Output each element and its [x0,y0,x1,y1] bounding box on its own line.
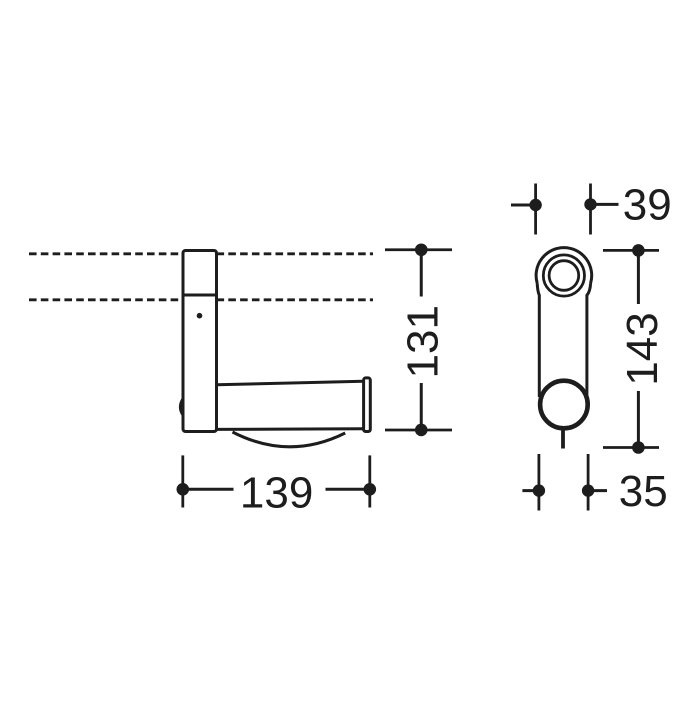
svg-text:139: 139 [240,469,313,518]
dimension 39 stub right [591,203,619,206]
dimension 35 dot right [582,484,594,496]
screw dot [197,313,203,319]
front view tail [561,430,565,449]
svg-text:39: 39 [623,181,672,230]
dimension 143 dot bottom [632,441,645,454]
dimension 131 dot bottom [415,424,428,437]
dimension 139 witness line right [368,455,371,507]
dimension 139 dot right [364,483,377,496]
dimension 39 witness line right [589,184,592,235]
plate divider line [183,294,217,297]
dimension 143 line upper segment [637,250,640,304]
dimension 139 dot left [177,483,190,496]
dimension 131 line upper segment [420,250,423,297]
svg-text:131: 131 [399,305,448,378]
front view bottom circle (bold) [540,381,588,429]
front view middle circle [543,255,584,296]
dimension 139 line left segment [183,488,234,491]
dimension 143 witness line bottom [603,446,659,449]
dimension 143 dot top [632,244,645,257]
dimension 131 witness line bottom [385,429,452,432]
svg-text:35: 35 [619,467,668,516]
dimension 139 line right segment [326,488,370,491]
arm end cap [364,378,371,432]
dimension 131 witness line top [385,248,452,251]
dashed rail line bottom [29,298,373,301]
dimension 35 witness line left [538,454,541,511]
dashed rail line top [29,252,373,255]
dimension 143 line lower segment [637,391,640,448]
dimension 35 stub left [522,489,539,492]
dimension 39 witness line left [534,184,537,235]
dimension 35 dot left [533,484,545,496]
dimension 35 witness line right [587,454,590,511]
dimension 39 dot left [529,199,541,211]
svg-text:143: 143 [618,312,667,385]
dimension 39 dot right [584,198,596,210]
bottom arc under arm [233,432,346,447]
dimension 139 witness line left [181,455,184,507]
wall plate [183,251,217,432]
dimension 131 dot top [415,243,428,256]
hook arm bottom edge [217,427,364,431]
hook arm top edge [217,381,364,385]
dimension 39 stub left [511,204,536,207]
front view inner circle [549,261,579,291]
dimension 143 witness line top [603,249,659,252]
left bump on wall plate [180,399,183,416]
dimension 131 line lower segment [420,383,423,430]
dimension 35 stub right [588,489,607,492]
front view dome outline [536,248,592,397]
